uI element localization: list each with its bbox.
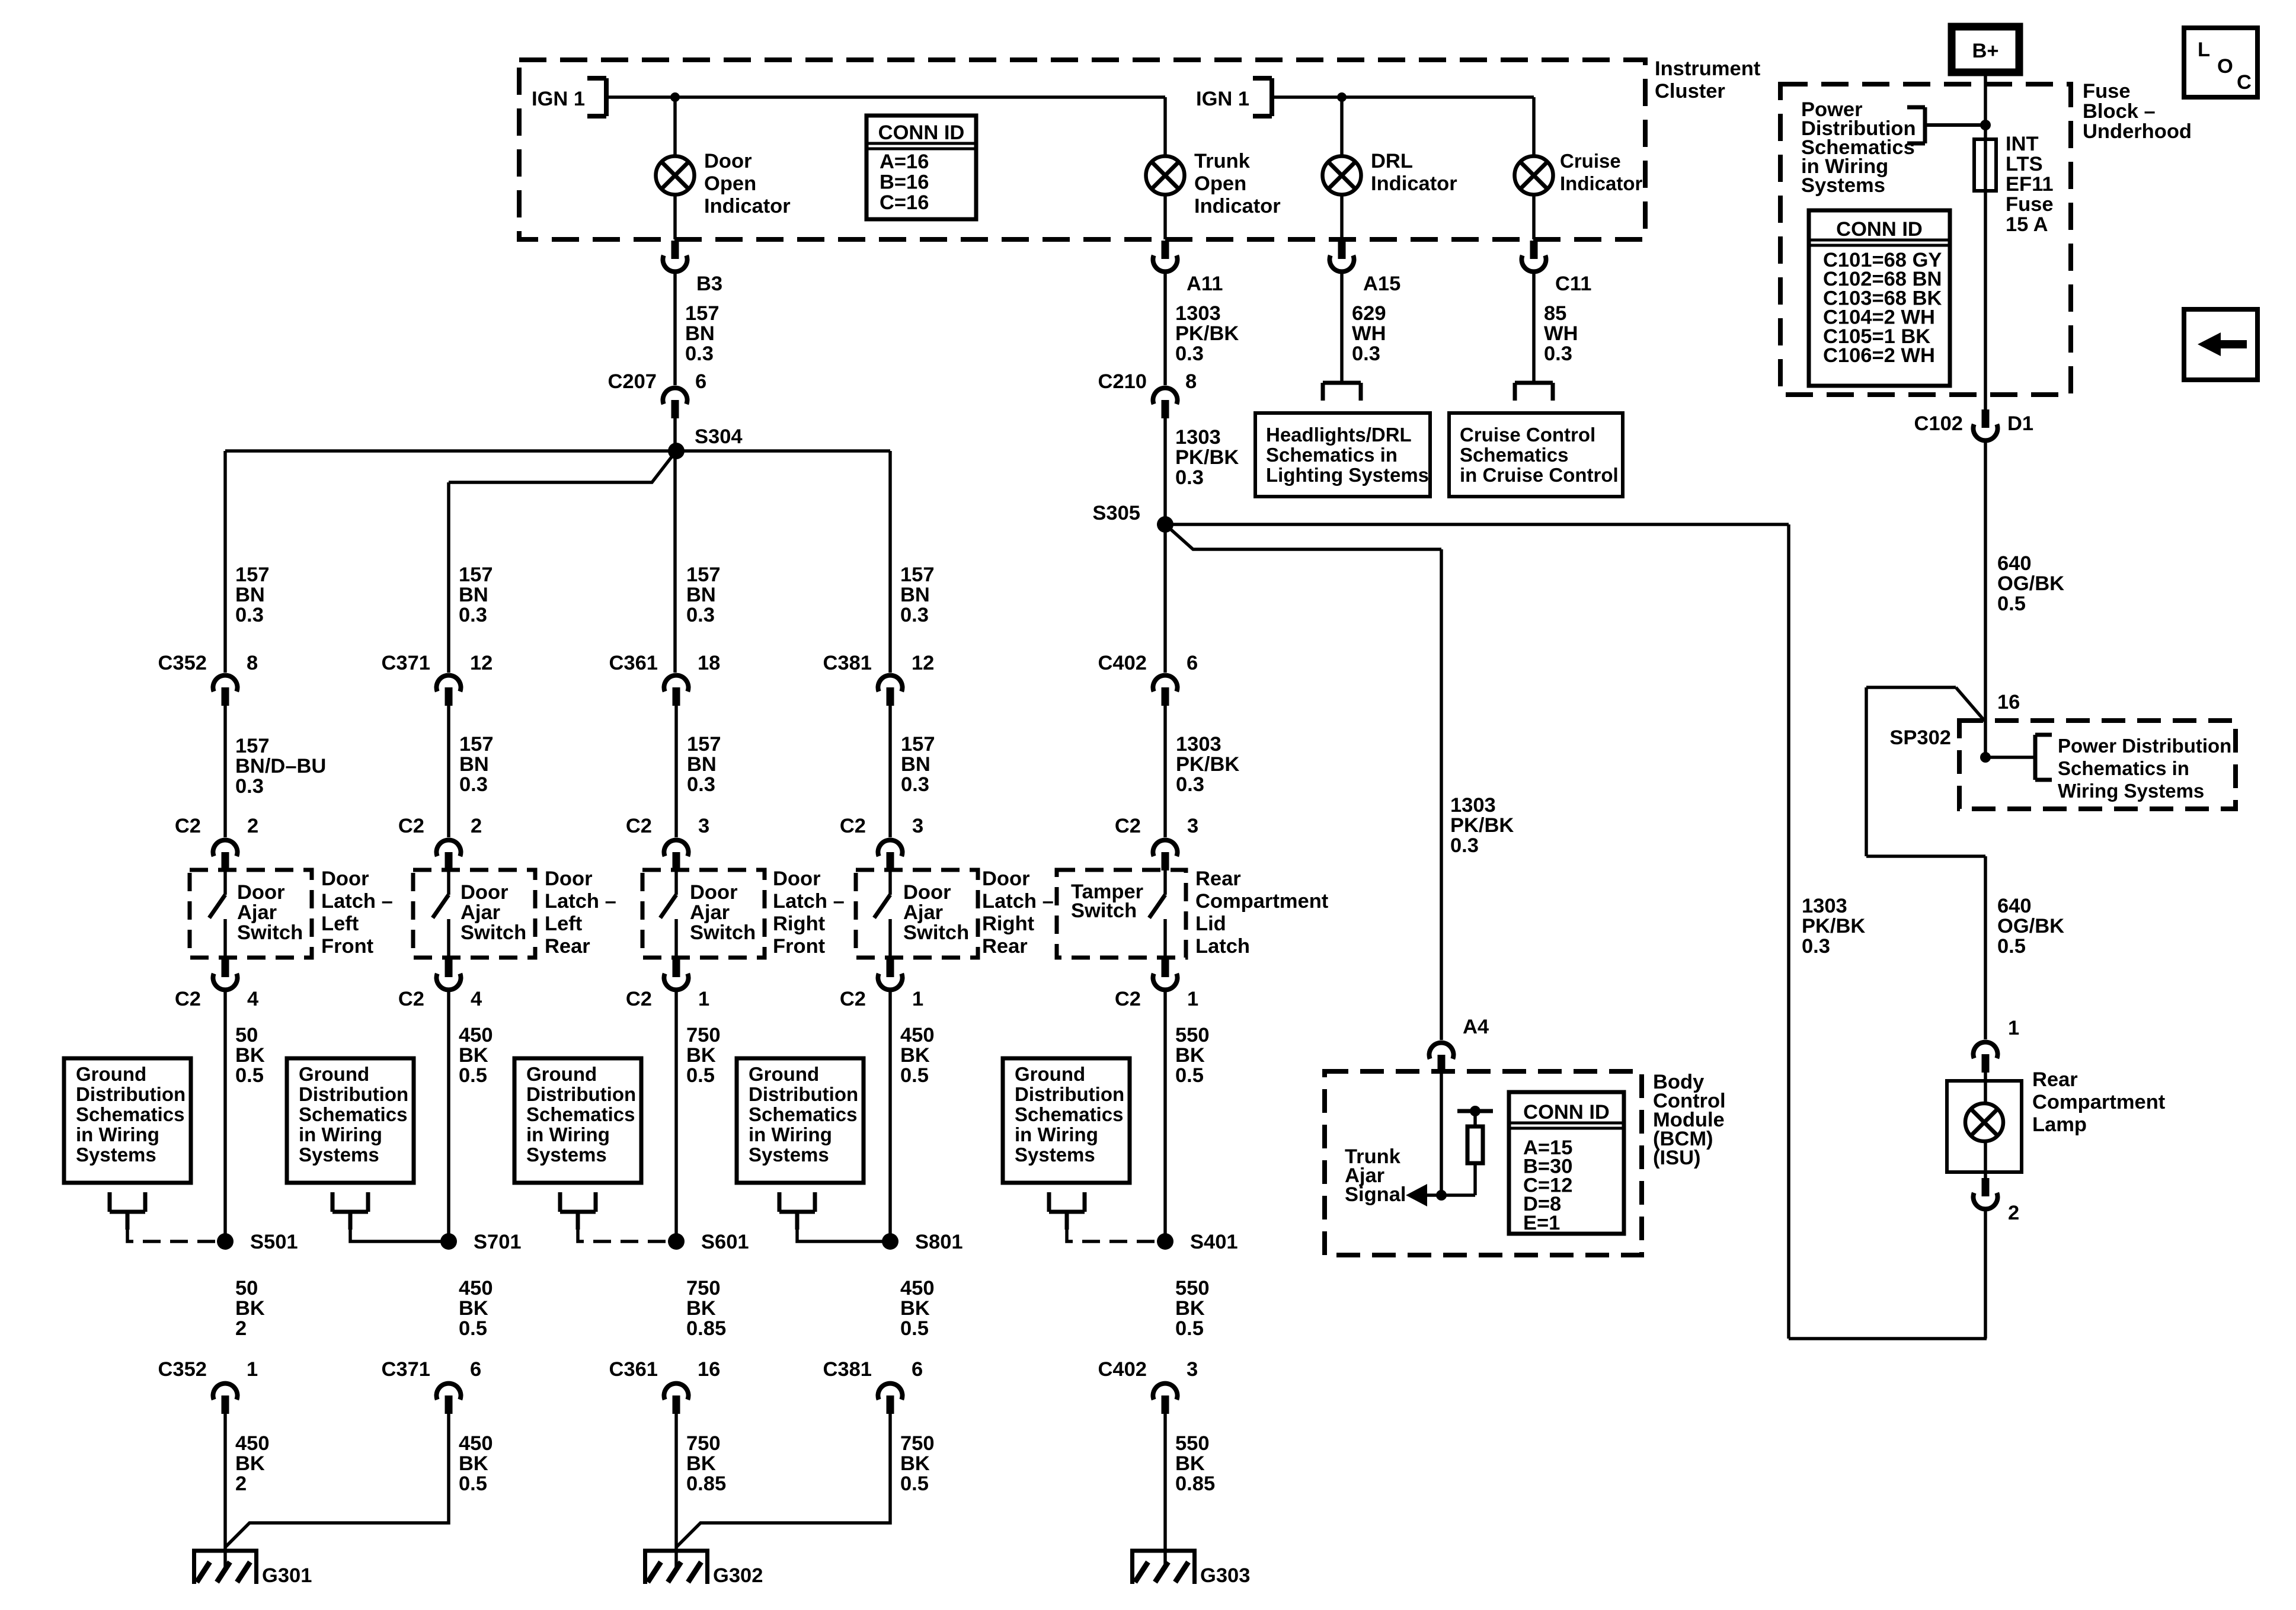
svg-text:1303: 1303	[1450, 794, 1496, 817]
svg-text:3: 3	[1187, 1358, 1198, 1381]
svg-text:12: 12	[912, 652, 934, 674]
svg-text:Ground: Ground	[526, 1063, 597, 1085]
svg-text:BK: BK	[459, 1452, 488, 1475]
svg-text:O: O	[2217, 55, 2233, 78]
svg-text:BK: BK	[900, 1044, 930, 1067]
svg-text:S305: S305	[1092, 502, 1140, 524]
svg-text:C371: C371	[382, 652, 430, 674]
svg-text:Distribution: Distribution	[76, 1083, 186, 1105]
svg-text:Cruise: Cruise	[1560, 150, 1621, 172]
svg-text:1: 1	[2008, 1017, 2019, 1039]
svg-text:PK/BK: PK/BK	[1176, 753, 1239, 776]
svg-text:0.5: 0.5	[1175, 1064, 1204, 1087]
svg-text:in Wiring: in Wiring	[299, 1124, 382, 1145]
svg-text:Ground: Ground	[1015, 1063, 1085, 1085]
svg-text:Compartment: Compartment	[1195, 890, 1329, 913]
svg-text:0.5: 0.5	[459, 1473, 487, 1495]
svg-text:50: 50	[235, 1277, 258, 1299]
svg-text:Door: Door	[704, 150, 752, 172]
svg-text:Distribution: Distribution	[526, 1083, 636, 1105]
svg-text:PK/BK: PK/BK	[1802, 915, 1865, 937]
svg-text:BK: BK	[459, 1297, 488, 1320]
svg-text:450: 450	[459, 1277, 493, 1299]
svg-text:CONN ID: CONN ID	[1836, 218, 1923, 241]
svg-text:Lid: Lid	[1195, 913, 1226, 935]
svg-text:DRL: DRL	[1371, 150, 1413, 172]
svg-text:A4: A4	[1463, 1016, 1489, 1038]
svg-text:550: 550	[1175, 1277, 1210, 1299]
svg-text:12: 12	[470, 652, 493, 674]
svg-text:450: 450	[459, 1432, 493, 1455]
svg-text:0.5: 0.5	[459, 1317, 487, 1340]
svg-text:0.3: 0.3	[687, 773, 715, 796]
svg-text:2: 2	[247, 815, 258, 837]
svg-text:Indicator: Indicator	[704, 195, 791, 217]
svg-text:450: 450	[900, 1277, 935, 1299]
svg-text:Systems: Systems	[299, 1144, 379, 1166]
svg-text:0.3: 0.3	[459, 604, 487, 626]
svg-text:Ground: Ground	[749, 1063, 819, 1085]
svg-text:Schematics: Schematics	[1460, 444, 1568, 466]
svg-text:C371: C371	[382, 1358, 430, 1381]
svg-text:Ajar: Ajar	[461, 901, 500, 924]
svg-text:3: 3	[912, 815, 923, 837]
svg-text:C361: C361	[609, 652, 658, 674]
svg-text:Schematics in: Schematics in	[1266, 444, 1398, 466]
svg-text:157: 157	[900, 564, 935, 586]
svg-text:BK: BK	[235, 1452, 265, 1475]
svg-text:PK/BK: PK/BK	[1175, 322, 1239, 345]
svg-text:C=16: C=16	[880, 191, 929, 214]
svg-text:0.3: 0.3	[1176, 773, 1204, 796]
svg-text:Open: Open	[1194, 172, 1246, 195]
svg-text:C2: C2	[398, 815, 424, 837]
svg-text:16: 16	[698, 1358, 720, 1381]
svg-text:OG/BK: OG/BK	[1997, 915, 2064, 937]
svg-text:157: 157	[685, 302, 720, 325]
svg-text:50: 50	[235, 1024, 258, 1046]
svg-text:BK: BK	[1175, 1297, 1205, 1320]
svg-text:750: 750	[686, 1024, 721, 1046]
svg-text:INT: INT	[2006, 133, 2039, 155]
svg-text:Schematics: Schematics	[749, 1103, 857, 1125]
svg-text:3: 3	[698, 815, 709, 837]
svg-text:G301: G301	[262, 1564, 312, 1587]
svg-text:750: 750	[900, 1432, 935, 1455]
svg-text:BN: BN	[459, 753, 489, 776]
svg-text:157: 157	[687, 733, 721, 756]
svg-text:0.3: 0.3	[1175, 466, 1204, 489]
svg-text:Right: Right	[982, 913, 1035, 935]
svg-text:0.85: 0.85	[686, 1317, 726, 1340]
svg-text:0.5: 0.5	[459, 1064, 487, 1087]
svg-text:Door: Door	[237, 881, 285, 904]
svg-text:S701: S701	[474, 1231, 522, 1253]
svg-text:SP302: SP302	[1889, 726, 1951, 749]
svg-text:Systems: Systems	[1015, 1144, 1095, 1166]
svg-text:Cluster: Cluster	[1655, 80, 1725, 103]
svg-text:1: 1	[1187, 988, 1198, 1010]
svg-text:Schematics: Schematics	[76, 1103, 184, 1125]
svg-text:C2: C2	[1115, 988, 1141, 1010]
svg-text:450: 450	[900, 1024, 935, 1046]
svg-text:C381: C381	[823, 1358, 872, 1381]
svg-text:Trunk: Trunk	[1194, 150, 1251, 172]
svg-text:Rear: Rear	[2032, 1068, 2078, 1091]
svg-text:PK/BK: PK/BK	[1450, 814, 1514, 837]
svg-text:Systems: Systems	[76, 1144, 156, 1166]
svg-text:Switch: Switch	[237, 921, 303, 944]
svg-text:S304: S304	[695, 425, 743, 448]
svg-text:Door: Door	[903, 881, 951, 904]
svg-text:S801: S801	[915, 1231, 963, 1253]
svg-text:8: 8	[1185, 370, 1197, 393]
svg-text:0.5: 0.5	[1997, 593, 2026, 615]
svg-text:550: 550	[1175, 1432, 1210, 1455]
svg-text:C402: C402	[1098, 652, 1147, 674]
svg-text:C: C	[2237, 71, 2252, 94]
svg-text:(ISU): (ISU)	[1653, 1147, 1701, 1169]
svg-text:E=1: E=1	[1523, 1212, 1560, 1234]
svg-text:1303: 1303	[1802, 895, 1847, 917]
svg-text:0.5: 0.5	[1997, 935, 2026, 958]
svg-text:0.3: 0.3	[235, 775, 264, 798]
svg-text:C381: C381	[823, 652, 872, 674]
svg-text:2: 2	[235, 1473, 247, 1495]
svg-text:6: 6	[695, 370, 706, 393]
svg-text:85: 85	[1544, 302, 1566, 325]
svg-text:0.5: 0.5	[900, 1317, 929, 1340]
svg-text:Fuse: Fuse	[2006, 193, 2054, 216]
svg-text:550: 550	[1175, 1024, 1210, 1046]
svg-text:15 A: 15 A	[2006, 213, 2048, 236]
svg-text:C352: C352	[158, 652, 207, 674]
svg-text:Rear: Rear	[1195, 868, 1241, 890]
svg-text:1: 1	[247, 1358, 258, 1381]
svg-text:0.3: 0.3	[1175, 343, 1204, 365]
svg-text:WH: WH	[1352, 322, 1386, 345]
svg-text:C361: C361	[609, 1358, 658, 1381]
svg-text:Indicator: Indicator	[1194, 195, 1281, 217]
svg-text:C402: C402	[1098, 1358, 1147, 1381]
svg-text:A15: A15	[1363, 273, 1400, 295]
svg-text:Cruise Control: Cruise Control	[1460, 424, 1595, 446]
svg-text:BN: BN	[901, 753, 930, 776]
svg-text:157: 157	[686, 564, 721, 586]
svg-text:Ajar: Ajar	[690, 901, 730, 924]
svg-text:Block –: Block –	[2083, 100, 2156, 123]
svg-text:in Cruise Control: in Cruise Control	[1460, 464, 1619, 486]
svg-text:BK: BK	[686, 1297, 716, 1320]
svg-text:BN: BN	[235, 584, 265, 606]
svg-text:Switch: Switch	[1071, 900, 1137, 922]
svg-text:WH: WH	[1544, 322, 1578, 345]
svg-text:0.5: 0.5	[900, 1473, 929, 1495]
svg-text:Systems: Systems	[1801, 174, 1885, 197]
svg-text:Door: Door	[321, 868, 369, 890]
svg-text:C207: C207	[608, 370, 657, 393]
svg-text:Latch –: Latch –	[545, 890, 616, 913]
svg-text:157: 157	[459, 733, 494, 756]
svg-text:in Wiring: in Wiring	[76, 1124, 159, 1145]
svg-text:Latch –: Latch –	[773, 890, 845, 913]
svg-text:0.3: 0.3	[1802, 935, 1830, 958]
svg-text:OG/BK: OG/BK	[1997, 572, 2064, 595]
svg-text:Signal: Signal	[1345, 1183, 1406, 1206]
svg-text:750: 750	[686, 1432, 721, 1455]
svg-text:Door: Door	[690, 881, 738, 904]
svg-text:Door: Door	[773, 868, 821, 890]
svg-text:Rear: Rear	[545, 935, 590, 958]
svg-text:3: 3	[1187, 815, 1198, 837]
svg-text:0.3: 0.3	[1450, 834, 1479, 857]
svg-text:C11: C11	[1555, 273, 1591, 295]
svg-text:S601: S601	[701, 1231, 749, 1253]
svg-text:D1: D1	[2007, 412, 2033, 435]
svg-text:BN: BN	[900, 584, 930, 606]
svg-text:640: 640	[1997, 895, 2032, 917]
svg-text:BK: BK	[900, 1452, 930, 1475]
svg-text:Instrument: Instrument	[1655, 57, 1761, 80]
svg-text:0.3: 0.3	[459, 773, 488, 796]
svg-text:Compartment: Compartment	[2032, 1091, 2166, 1113]
svg-text:Schematics in: Schematics in	[2058, 757, 2189, 779]
svg-text:Schematics: Schematics	[299, 1103, 407, 1125]
svg-text:Ajar: Ajar	[237, 901, 277, 924]
svg-text:Systems: Systems	[526, 1144, 607, 1166]
svg-text:450: 450	[235, 1432, 270, 1455]
svg-text:Systems: Systems	[749, 1144, 829, 1166]
svg-text:1: 1	[912, 988, 923, 1010]
svg-text:Latch –: Latch –	[982, 890, 1054, 913]
svg-text:IGN 1: IGN 1	[532, 88, 585, 110]
svg-text:Schematics: Schematics	[1015, 1103, 1123, 1125]
svg-text:BN: BN	[459, 584, 488, 606]
svg-text:Lighting Systems: Lighting Systems	[1266, 464, 1429, 486]
svg-text:4: 4	[471, 988, 482, 1010]
svg-text:BN: BN	[687, 753, 717, 776]
svg-text:BN/D–BU: BN/D–BU	[235, 755, 326, 777]
svg-text:Ajar: Ajar	[903, 901, 943, 924]
svg-text:IGN 1: IGN 1	[1196, 88, 1249, 110]
svg-text:Left: Left	[545, 913, 583, 935]
svg-text:B=16: B=16	[880, 171, 929, 194]
svg-text:C2: C2	[175, 988, 201, 1010]
svg-text:2: 2	[471, 815, 482, 837]
svg-text:Power Distribution: Power Distribution	[2058, 735, 2231, 757]
svg-text:A=16: A=16	[880, 151, 929, 173]
svg-text:18: 18	[698, 652, 720, 674]
svg-text:16: 16	[1997, 691, 2020, 713]
svg-text:0.5: 0.5	[235, 1064, 264, 1087]
svg-text:157: 157	[459, 564, 493, 586]
svg-text:BK: BK	[900, 1297, 930, 1320]
svg-text:6: 6	[470, 1358, 481, 1381]
svg-text:2: 2	[2008, 1202, 2019, 1224]
svg-text:S401: S401	[1190, 1231, 1238, 1253]
svg-text:EF11: EF11	[2006, 173, 2054, 196]
svg-text:1: 1	[698, 988, 709, 1010]
svg-text:Front: Front	[773, 935, 826, 958]
svg-text:450: 450	[459, 1024, 493, 1046]
svg-text:B+: B+	[1972, 40, 1998, 62]
svg-text:C2: C2	[626, 815, 652, 837]
svg-text:629: 629	[1352, 302, 1386, 325]
svg-text:6: 6	[912, 1358, 923, 1381]
svg-text:Indicator: Indicator	[1371, 172, 1457, 195]
svg-text:0.3: 0.3	[1352, 343, 1380, 365]
svg-text:C106=2 WH: C106=2 WH	[1823, 344, 1935, 367]
svg-text:Schematics: Schematics	[526, 1103, 635, 1125]
svg-text:Switch: Switch	[903, 921, 969, 944]
svg-text:8: 8	[247, 652, 258, 674]
svg-text:0.5: 0.5	[900, 1064, 929, 1087]
svg-text:Door: Door	[545, 868, 593, 890]
svg-text:750: 750	[686, 1277, 721, 1299]
svg-text:C2: C2	[840, 988, 866, 1010]
svg-text:Ground: Ground	[299, 1063, 369, 1085]
svg-text:1303: 1303	[1175, 426, 1221, 449]
svg-text:157: 157	[235, 735, 270, 757]
svg-text:4: 4	[247, 988, 258, 1010]
svg-text:640: 640	[1997, 552, 2032, 575]
svg-text:0.5: 0.5	[1175, 1317, 1204, 1340]
svg-text:0.85: 0.85	[1175, 1473, 1215, 1495]
svg-text:Front: Front	[321, 935, 374, 958]
svg-text:Door: Door	[982, 868, 1030, 890]
svg-text:0.3: 0.3	[1544, 343, 1572, 365]
svg-text:Headlights/DRL: Headlights/DRL	[1266, 424, 1412, 446]
svg-text:C2: C2	[1115, 815, 1141, 837]
svg-text:Distribution: Distribution	[1015, 1083, 1124, 1105]
svg-text:157: 157	[901, 733, 935, 756]
svg-text:BK: BK	[459, 1044, 488, 1067]
svg-text:BK: BK	[1175, 1044, 1205, 1067]
svg-text:Rear: Rear	[982, 935, 1028, 958]
svg-text:0.5: 0.5	[686, 1064, 715, 1087]
svg-text:in Wiring: in Wiring	[526, 1124, 610, 1145]
svg-text:BN: BN	[685, 322, 715, 345]
svg-text:BK: BK	[1175, 1452, 1205, 1475]
svg-text:in Wiring: in Wiring	[1015, 1124, 1098, 1145]
svg-text:Latch –: Latch –	[321, 890, 393, 913]
svg-text:Switch: Switch	[690, 921, 756, 944]
svg-text:BK: BK	[686, 1044, 716, 1067]
svg-text:Open: Open	[704, 172, 756, 195]
svg-text:BK: BK	[686, 1452, 716, 1475]
svg-text:C2: C2	[175, 815, 201, 837]
svg-text:0.3: 0.3	[900, 604, 929, 626]
svg-text:S501: S501	[250, 1231, 298, 1253]
svg-text:BK: BK	[235, 1297, 265, 1320]
svg-text:0.3: 0.3	[685, 343, 714, 365]
svg-text:Distribution: Distribution	[749, 1083, 858, 1105]
svg-text:CONN ID: CONN ID	[1523, 1101, 1610, 1124]
svg-text:G303: G303	[1200, 1564, 1250, 1587]
svg-text:PK/BK: PK/BK	[1175, 446, 1239, 469]
svg-text:C2: C2	[398, 988, 424, 1010]
svg-text:CONN ID: CONN ID	[878, 121, 965, 144]
svg-text:Left: Left	[321, 913, 359, 935]
svg-text:0.3: 0.3	[901, 773, 929, 796]
svg-text:Lamp: Lamp	[2032, 1113, 2087, 1136]
svg-text:L: L	[2198, 39, 2210, 61]
svg-text:0.3: 0.3	[686, 604, 715, 626]
svg-text:2: 2	[235, 1317, 247, 1340]
svg-text:0.85: 0.85	[686, 1473, 726, 1495]
svg-text:C352: C352	[158, 1358, 207, 1381]
svg-text:Door: Door	[461, 881, 509, 904]
svg-text:Distribution: Distribution	[299, 1083, 408, 1105]
svg-text:B3: B3	[696, 273, 722, 295]
svg-text:1303: 1303	[1175, 302, 1221, 325]
svg-text:Right: Right	[773, 913, 826, 935]
svg-text:Indicator: Indicator	[1560, 172, 1643, 194]
svg-text:Fuse: Fuse	[2083, 80, 2131, 103]
svg-text:6: 6	[1187, 652, 1198, 674]
svg-text:BN: BN	[686, 584, 716, 606]
svg-text:Switch: Switch	[461, 921, 526, 944]
svg-text:1303: 1303	[1176, 733, 1221, 756]
svg-text:BK: BK	[235, 1044, 265, 1067]
svg-text:0.3: 0.3	[235, 604, 264, 626]
svg-text:C102: C102	[1914, 412, 1963, 435]
svg-text:LTS: LTS	[2006, 153, 2043, 175]
svg-text:in Wiring: in Wiring	[749, 1124, 832, 1145]
svg-text:Ground: Ground	[76, 1063, 146, 1085]
svg-text:157: 157	[235, 564, 270, 586]
svg-text:Wiring Systems: Wiring Systems	[2058, 780, 2204, 802]
svg-text:A11: A11	[1187, 273, 1223, 295]
svg-text:C210: C210	[1098, 370, 1147, 393]
svg-text:Underhood: Underhood	[2083, 120, 2192, 143]
svg-text:C2: C2	[626, 988, 652, 1010]
svg-text:Latch: Latch	[1195, 935, 1250, 958]
svg-text:G302: G302	[713, 1564, 763, 1587]
svg-text:C2: C2	[840, 815, 866, 837]
